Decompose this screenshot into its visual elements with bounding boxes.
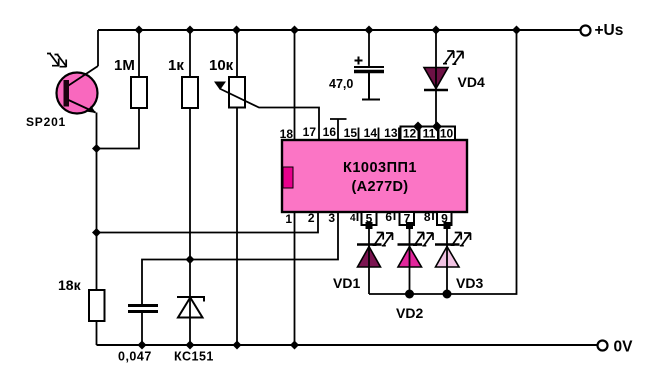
node junction pin9 square bbox=[444, 222, 451, 229]
capacitor C1 plus sign bbox=[355, 57, 363, 65]
wire pin 1 to 0V rail bbox=[294, 212, 296, 345]
terminal 0V bbox=[598, 341, 608, 351]
svg-text:10к: 10к bbox=[209, 57, 234, 74]
svg-text:15: 15 bbox=[344, 126, 358, 140]
LED VD2 light arrow 1 bbox=[413, 232, 424, 245]
svg-text:0,047: 0,047 bbox=[118, 350, 152, 364]
svg-text:VD4: VD4 bbox=[458, 74, 485, 90]
svg-text:VD3: VD3 bbox=[456, 275, 483, 291]
capacitor C2 bottom lead bbox=[141, 313, 143, 345]
resistor R1 1M leads bbox=[138, 30, 140, 77]
node junction pin5 square bbox=[366, 222, 373, 229]
node junction emitter y232.5 bbox=[92, 228, 101, 237]
resistor R2 1k body bbox=[182, 77, 198, 108]
transistor collector diagonal bbox=[69, 66, 99, 86]
pin 4 tick bbox=[357, 212, 359, 221]
node junction top rail x236.5 bbox=[232, 26, 241, 35]
capacitor C2 0,047 top plate bbox=[128, 304, 158, 307]
node junction pins 12-11 bbox=[413, 122, 423, 132]
pin 7 box bbox=[400, 212, 415, 225]
potentiometer R3 10k body bbox=[229, 77, 245, 108]
svg-text:К1003ПП1: К1003ПП1 bbox=[343, 160, 417, 176]
svg-text:1M: 1M bbox=[114, 57, 135, 74]
LED VD3 light arrow 1 bbox=[451, 232, 462, 245]
light arrow 1 into SP201 bbox=[47, 53, 59, 66]
capacitor C2 bottom plate bbox=[128, 310, 158, 313]
potentiometer wiper arrow bbox=[214, 82, 226, 91]
resistor R2 1k lead bbox=[189, 30, 191, 77]
LED VD1 cathode bar bbox=[357, 243, 382, 246]
svg-text:18к: 18к bbox=[58, 277, 82, 293]
node junction emitter x96.5 y148.5 bbox=[92, 144, 101, 153]
node junction top rail x516.5 bbox=[512, 26, 521, 35]
capacitor C1 bottom plate bbox=[354, 70, 384, 74]
wire bottom 0V rail bbox=[97, 344, 598, 346]
svg-text:14: 14 bbox=[364, 126, 378, 140]
wire right side +Us to LED anode rail bbox=[369, 30, 517, 294]
node junction LED rail x447 bbox=[443, 290, 452, 299]
LED VD1 light arrow 2 bbox=[382, 233, 393, 246]
IC U1 index tab bbox=[283, 167, 293, 188]
LED VD4 lead through bbox=[435, 30, 437, 126]
wire collector drop from rail bbox=[97, 30, 99, 66]
resistor R1 1M body bbox=[131, 77, 147, 108]
svg-text:13: 13 bbox=[384, 126, 398, 140]
pin 6 tick bbox=[394, 212, 396, 220]
transistor emitter with arrow bbox=[69, 100, 96, 113]
svg-text:47,0: 47,0 bbox=[329, 77, 353, 91]
node junction 0V rail x190 bbox=[186, 341, 195, 350]
wire top rail to pin 18 bbox=[294, 30, 296, 140]
svg-text:3: 3 bbox=[328, 211, 335, 225]
LED VD3 light arrow 2 bbox=[460, 233, 471, 246]
svg-text:17: 17 bbox=[303, 125, 317, 139]
wire 10k bottom down to 0V rail bbox=[236, 108, 238, 346]
LED VD1 light arrow 1 bbox=[373, 232, 384, 245]
wire pin 2 to emitter node bbox=[97, 212, 319, 233]
capacitor C1 top plate bbox=[354, 66, 384, 68]
node junction top rail x294.5 bbox=[290, 26, 299, 35]
LED VD4 light arrow 1 bbox=[443, 51, 454, 64]
pin 16 tick with NC tee bbox=[330, 119, 347, 140]
pin 10 box bbox=[439, 127, 456, 141]
svg-text:VD2: VD2 bbox=[396, 305, 423, 321]
resistor R4 18k body bbox=[89, 290, 105, 321]
node junction zener top y259.5 bbox=[186, 255, 195, 264]
svg-text:18: 18 bbox=[280, 127, 294, 141]
svg-text:12: 12 bbox=[403, 127, 417, 141]
light arrow 2 into SP201 bbox=[55, 54, 67, 67]
LED VD4 light arrow 2 bbox=[452, 51, 463, 64]
pin 12 box bbox=[401, 127, 419, 141]
zener diode VD5 KC151 triangle bbox=[178, 298, 203, 318]
LED VD4 cathode bar bbox=[424, 89, 448, 92]
capacitor C1 bottom lead with T end bbox=[362, 73, 380, 100]
terminal +Us bbox=[581, 26, 591, 36]
wire emitter down bbox=[96, 113, 98, 291]
pin 8 tick bbox=[432, 212, 434, 220]
LED VD4 triangle bbox=[424, 68, 448, 89]
wire wiper to pin 17 bbox=[221, 89, 320, 140]
svg-text:SP201: SP201 bbox=[26, 115, 66, 129]
svg-text:VD1: VD1 bbox=[333, 275, 360, 291]
LED VD2 lead through bbox=[409, 226, 411, 295]
node junction top rail x436 bbox=[432, 26, 441, 35]
wire 1k bottom down to zener bbox=[189, 108, 191, 296]
node junction 0V rail x294.5 bbox=[290, 341, 299, 350]
pin 13 tick bbox=[398, 128, 400, 141]
wire zener vertical through bbox=[189, 296, 191, 345]
wire 1M bottom to emitter bbox=[97, 108, 140, 149]
capacitor C1 47,0 top lead bbox=[368, 30, 370, 66]
LED VD2 cathode bar bbox=[398, 243, 423, 246]
svg-text:КС151: КС151 bbox=[174, 350, 214, 364]
LED VD1 triangle bbox=[358, 247, 381, 268]
pin 14 tick bbox=[378, 128, 380, 141]
wire pin 3 to cap 0,047 bbox=[142, 212, 338, 304]
potentiometer R3 10k lead bbox=[236, 30, 238, 77]
svg-text:(А277D): (А277D) bbox=[352, 179, 409, 195]
node junction top rail x369 bbox=[365, 26, 374, 35]
zener diode cathode bar with hook bbox=[177, 297, 204, 302]
LED VD3 triangle bbox=[436, 247, 460, 268]
svg-text:2: 2 bbox=[308, 211, 315, 225]
node junction pins 11-10 VD4 bbox=[432, 122, 442, 132]
svg-text:16: 16 bbox=[323, 125, 337, 139]
node junction 0V rail x237 bbox=[233, 341, 242, 350]
svg-text:1: 1 bbox=[285, 212, 292, 226]
wire top +Us rail bbox=[98, 29, 580, 31]
svg-text:11: 11 bbox=[423, 127, 436, 141]
IC U1 body K1003PP1 bbox=[282, 140, 467, 212]
pin 9 box bbox=[437, 212, 452, 225]
svg-text:10: 10 bbox=[440, 127, 454, 141]
LED VD2 light arrow 2 bbox=[422, 233, 433, 246]
LED VD3 lead through bbox=[446, 226, 448, 295]
wire 18k bottom bbox=[96, 321, 98, 345]
node junction top rail x190 bbox=[186, 26, 195, 35]
pin 5 box bbox=[362, 212, 377, 225]
svg-text:0V: 0V bbox=[614, 339, 634, 356]
svg-text:8: 8 bbox=[424, 210, 431, 224]
node junction LED rail x409.5 bbox=[405, 290, 414, 299]
transistor Q1 SP201 body bbox=[57, 73, 98, 114]
transistor base bar bbox=[64, 80, 70, 107]
LED VD3 cathode bar bbox=[435, 243, 460, 246]
svg-text:6: 6 bbox=[385, 210, 392, 224]
pin 15 tick bbox=[358, 128, 360, 141]
svg-text:1к: 1к bbox=[168, 57, 184, 74]
node junction top rail x139 bbox=[135, 26, 144, 35]
node junction pin7 square bbox=[406, 222, 413, 229]
pin 11 box bbox=[420, 127, 439, 141]
LED VD1 lead through bbox=[368, 226, 370, 295]
LED VD2 triangle bbox=[398, 247, 422, 268]
svg-text:4: 4 bbox=[350, 213, 356, 224]
svg-text:+Us: +Us bbox=[595, 22, 624, 39]
node junction 0V rail x142 bbox=[138, 341, 147, 350]
